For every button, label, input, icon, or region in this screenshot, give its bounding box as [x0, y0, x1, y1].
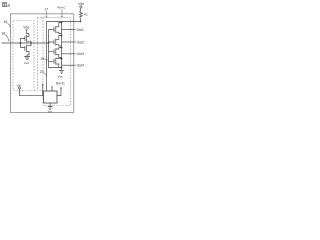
- svg-text:Out1: Out1: [77, 28, 84, 32]
- svg-text:Out2: Out2: [77, 40, 84, 44]
- svg-text:20: 20: [40, 70, 44, 74]
- svg-text:Rw-IC: Rw-IC: [56, 82, 66, 86]
- svg-text:Vss: Vss: [58, 75, 64, 79]
- svg-text:Out3: Out3: [77, 52, 84, 56]
- svg-text:18: 18: [1, 31, 5, 35]
- svg-text:Vss: Vss: [24, 61, 30, 65]
- svg-text:Out4: Out4: [77, 64, 84, 68]
- svg-text:16: 16: [3, 20, 7, 24]
- svg-text:19: 19: [40, 57, 44, 61]
- svg-text:Rw-IC: Rw-IC: [57, 5, 66, 9]
- svg-text:R1: R1: [84, 13, 88, 17]
- svg-text:4: 4: [7, 3, 10, 9]
- svg-text:Vdd: Vdd: [78, 2, 84, 6]
- svg-text:17: 17: [44, 8, 48, 12]
- svg-text:Vss: Vss: [48, 109, 53, 113]
- svg-text:Vdd: Vdd: [23, 25, 29, 29]
